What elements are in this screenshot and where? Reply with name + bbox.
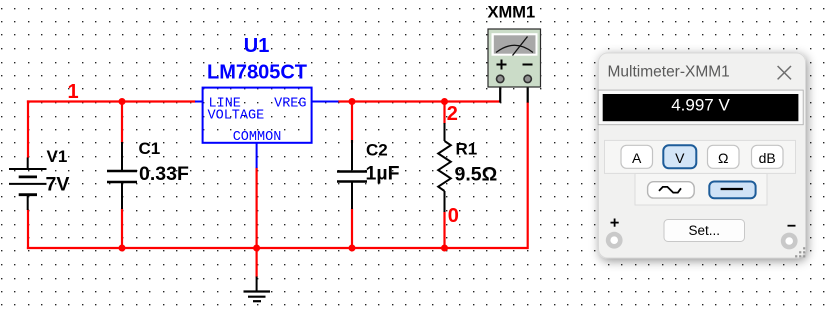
svg-text:V1: V1 <box>47 147 68 166</box>
plus marking <box>497 60 507 70</box>
svg-text:1: 1 <box>68 81 79 103</box>
U1 bottom pin <box>256 143 258 168</box>
set button <box>664 220 745 242</box>
junction bottom C2 <box>349 245 356 252</box>
voltage source V1 <box>9 158 47 211</box>
plus terminal <box>497 75 504 82</box>
svg-text:U1: U1 <box>244 35 270 57</box>
multimeter panel window <box>598 53 805 258</box>
svg-text:COMMON: COMMON <box>233 130 282 145</box>
XMM1 body <box>488 29 541 87</box>
svg-text:0.33F: 0.33F <box>139 163 189 185</box>
panel plus marking <box>611 219 619 227</box>
button V selected <box>663 145 696 168</box>
close button <box>778 66 791 79</box>
svg-text:LM7805CT: LM7805CT <box>207 62 307 84</box>
svg-text:VOLTAGE: VOLTAGE <box>208 109 265 124</box>
svg-text:V: V <box>675 150 685 166</box>
button DC selected <box>709 182 755 199</box>
svg-text:R1: R1 <box>456 140 478 159</box>
display bezel <box>598 90 803 125</box>
wire: U1 common down to bus <box>256 168 258 249</box>
wire: bottom bus net 0 <box>27 247 528 249</box>
junction bottom ground <box>253 245 260 252</box>
button AC sine <box>648 182 695 198</box>
resize grip <box>795 247 805 257</box>
button A <box>621 145 653 168</box>
mode group box <box>605 140 796 173</box>
svg-text:C1: C1 <box>139 139 161 158</box>
display screen <box>603 94 799 121</box>
wire: R1 bottom stub <box>443 212 445 249</box>
junction top C1 <box>119 98 126 105</box>
capacitor C2 <box>337 140 367 209</box>
wire: C2 top stub <box>351 102 353 144</box>
svg-text:Ω: Ω <box>718 150 728 166</box>
U1 right pin <box>312 101 339 103</box>
minus terminal jack <box>781 233 798 250</box>
wire: battery bottom vertical <box>27 210 29 250</box>
button ohm <box>708 145 740 168</box>
svg-text:A: A <box>632 150 642 166</box>
svg-text:VREG: VREG <box>274 97 306 112</box>
wire: top-left horizontal net 1 <box>27 100 196 102</box>
svg-text:0: 0 <box>448 205 459 227</box>
svg-text:7V: 7V <box>46 174 70 196</box>
meter scale arc <box>496 45 533 52</box>
wire: C1 top stub <box>121 102 123 144</box>
minus marking <box>523 64 533 66</box>
svg-text:C2: C2 <box>366 141 388 160</box>
panel minus marking <box>788 225 796 227</box>
XMM1 meter face <box>492 33 538 56</box>
svg-text:9.5Ω: 9.5Ω <box>455 164 498 186</box>
svg-text:1µF: 1µF <box>366 163 400 185</box>
meter needle <box>513 37 528 56</box>
wire: right vertical to multimeter minus <box>527 102 529 249</box>
wire: top-right horizontal net 2 <box>338 100 500 102</box>
wire: C1 bottom stub <box>121 209 123 249</box>
resistor R1 <box>438 123 451 212</box>
junction bottom R1 <box>441 245 448 252</box>
junction top C2 <box>349 98 356 105</box>
svg-text:XMM1: XMM1 <box>488 4 536 22</box>
XMM1 minus lead stub <box>527 80 529 103</box>
svg-text:Set...: Set... <box>688 223 720 238</box>
svg-text:dB: dB <box>759 150 776 166</box>
minus terminal <box>524 75 531 82</box>
wire: R1 top stub <box>443 102 445 125</box>
regulator U1 box <box>195 88 339 168</box>
wire: C2 bottom stub <box>351 209 353 249</box>
svg-text:4.997 V: 4.997 V <box>671 96 730 115</box>
button dB <box>752 145 784 168</box>
ground symbol <box>244 277 271 302</box>
wire: battery top vertical <box>27 100 29 157</box>
wire: bus to ground <box>256 248 258 278</box>
capacitor C1 <box>107 142 137 209</box>
plus terminal jack <box>606 232 623 249</box>
XMM1 plus lead stub <box>499 80 501 103</box>
junction top R1 <box>441 98 448 105</box>
ac dc group box <box>635 174 767 206</box>
U1 left pin <box>195 101 203 103</box>
multimeter XMM1 icon <box>488 29 541 103</box>
junction bottom C1 <box>119 245 126 252</box>
svg-text:2: 2 <box>447 103 458 125</box>
svg-text:Multimeter-XMM1: Multimeter-XMM1 <box>608 64 730 81</box>
